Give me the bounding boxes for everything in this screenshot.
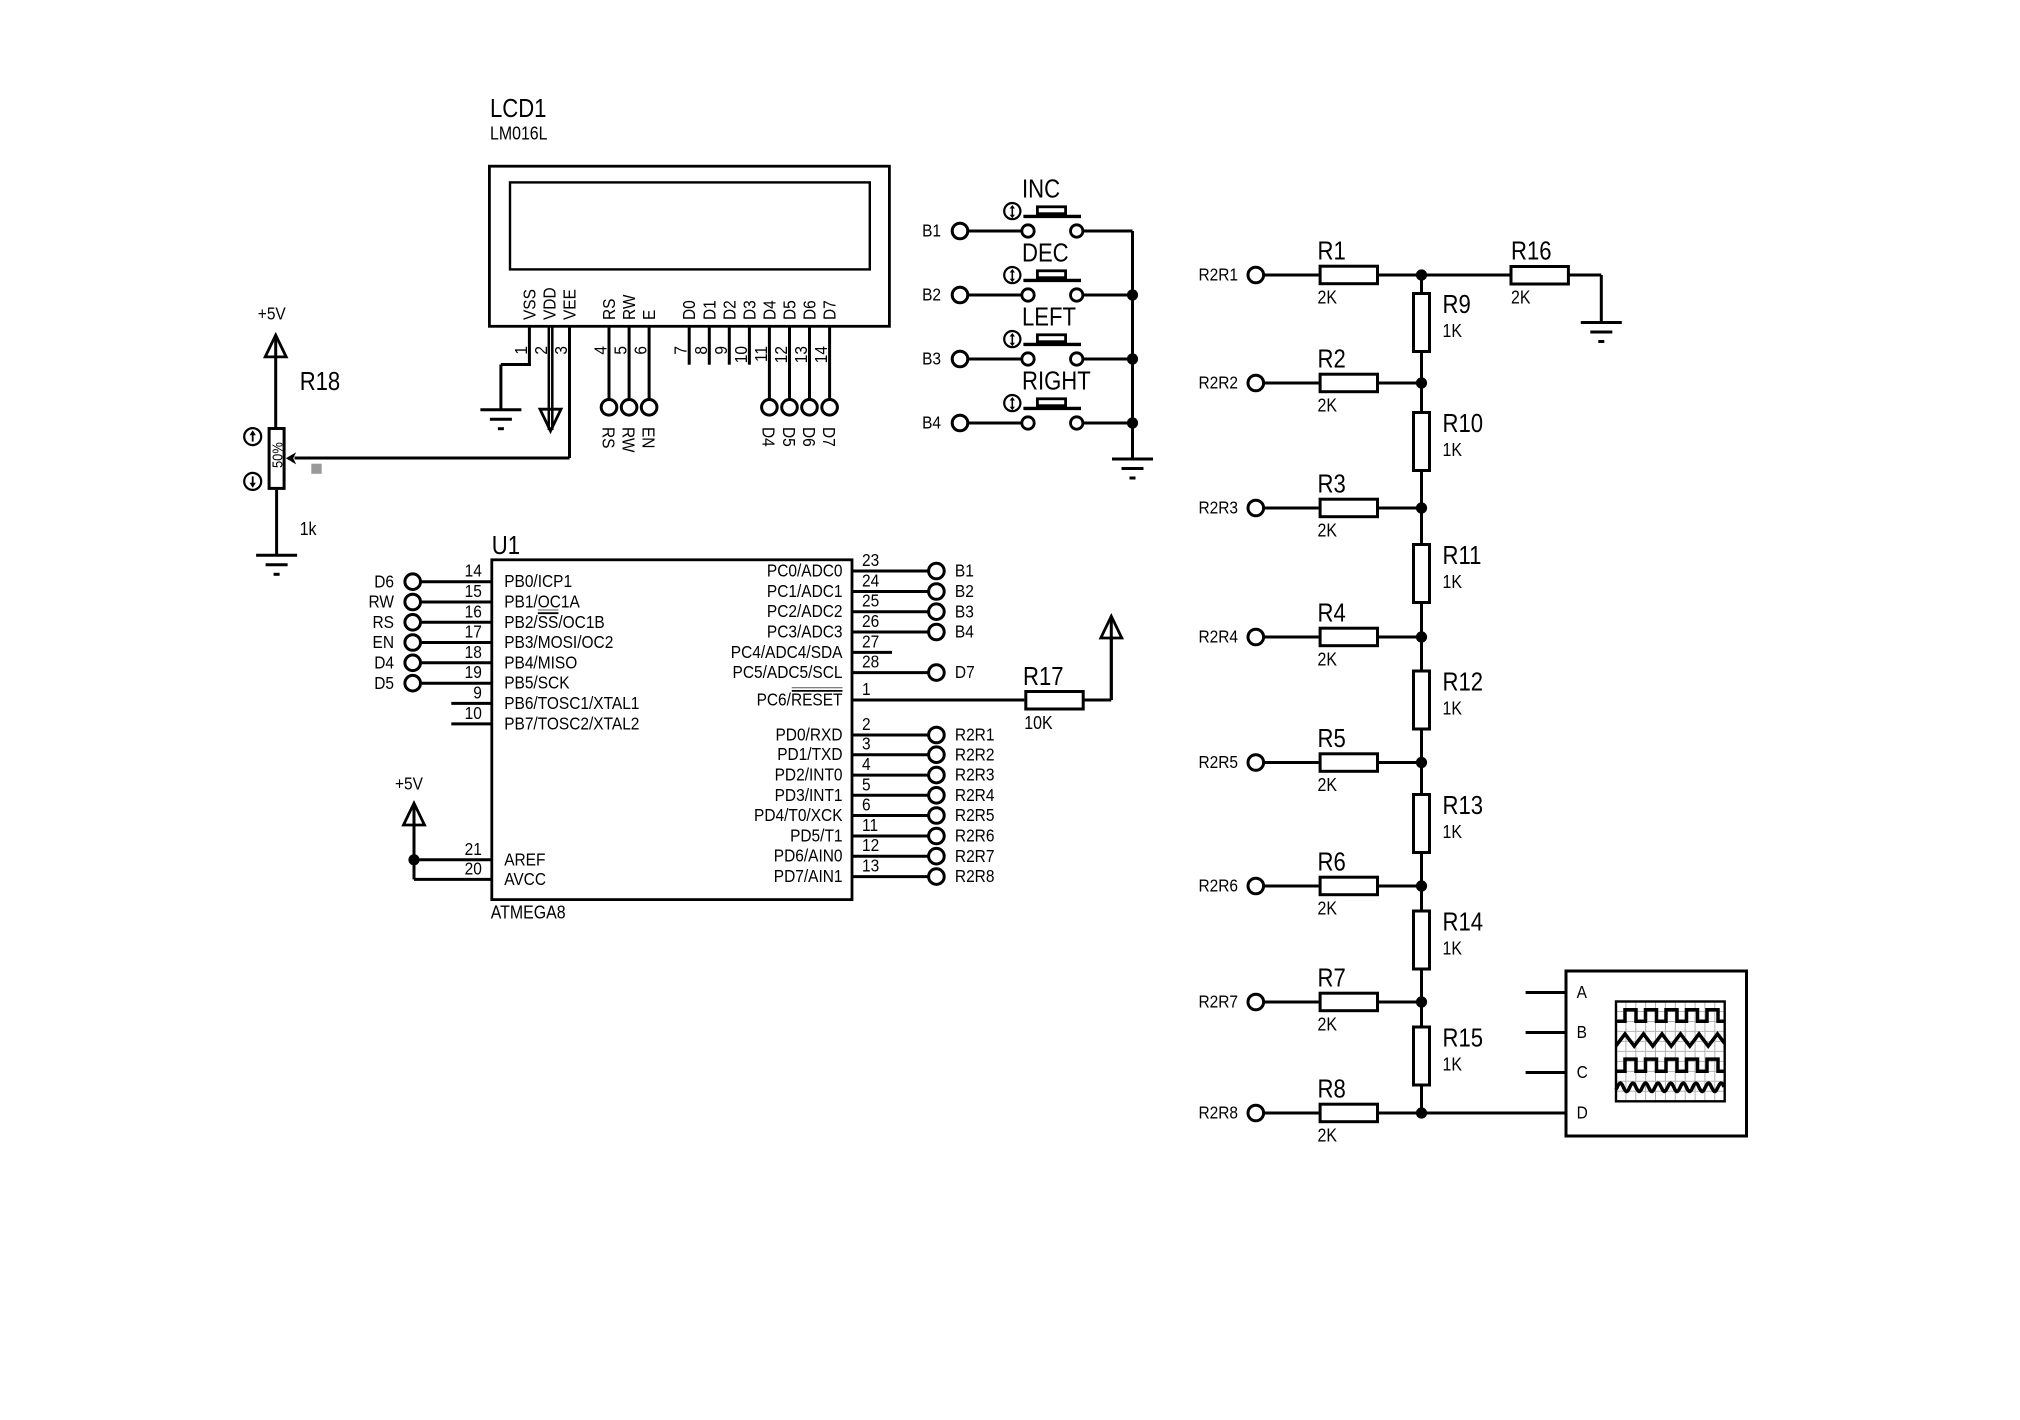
terminal D6 (LCD side) bbox=[802, 400, 818, 416]
svg-text:PD0/RXD: PD0/RXD bbox=[775, 724, 842, 744]
svg-text:1: 1 bbox=[862, 679, 871, 699]
svg-text:INC: INC bbox=[1022, 175, 1060, 204]
svg-text:R5: R5 bbox=[1318, 724, 1346, 753]
wire pin 23 bbox=[852, 570, 928, 573]
LCD screen inner rectangle bbox=[510, 182, 870, 269]
terminal R2R7 (ladder side) bbox=[1248, 994, 1264, 1010]
svg-text:B2: B2 bbox=[955, 581, 974, 601]
junction B3 bus bbox=[1127, 353, 1138, 364]
svg-text:2K: 2K bbox=[1318, 1124, 1338, 1145]
terminal D7 (U1 side) bbox=[929, 665, 945, 681]
wire bus segment below R13 bbox=[1420, 854, 1423, 886]
terminal EN (LCD side) bbox=[641, 400, 657, 416]
overline over RESET bbox=[792, 690, 843, 692]
svg-text:12: 12 bbox=[862, 835, 879, 855]
wire AVCC bbox=[413, 860, 416, 880]
resistor R11 body bbox=[1414, 545, 1430, 603]
terminal B4 (button side) bbox=[952, 415, 968, 431]
svg-text:R2R2: R2R2 bbox=[955, 744, 995, 764]
svg-text:B3: B3 bbox=[922, 349, 941, 369]
microcontroller U1 body bbox=[492, 560, 852, 900]
svg-text:R2R4: R2R4 bbox=[1198, 627, 1238, 647]
wire R18 bottom to ground bbox=[275, 490, 278, 555]
svg-text:D5: D5 bbox=[374, 673, 394, 693]
svg-text:U1: U1 bbox=[492, 531, 520, 560]
scope trace A square wave bbox=[1616, 1010, 1725, 1022]
wire B4 to button bbox=[969, 422, 1022, 425]
svg-text:PB7/TOSC2/XTAL2: PB7/TOSC2/XTAL2 bbox=[504, 713, 639, 733]
wire LCD pin12 to terminal bbox=[788, 326, 791, 399]
resistor R1 body bbox=[1320, 266, 1377, 284]
+5V power arrow (AREF) bbox=[404, 803, 425, 825]
wire R6 to ladder bus bbox=[1379, 885, 1422, 888]
resistor R8 body bbox=[1320, 1104, 1377, 1122]
wire R17 to +5V bbox=[1084, 699, 1111, 702]
svg-text:PD3/INT1: PD3/INT1 bbox=[775, 785, 843, 805]
svg-text:D5: D5 bbox=[779, 300, 799, 320]
svg-text:DEC: DEC bbox=[1022, 239, 1069, 268]
wire R2R2 to R2 bbox=[1265, 382, 1319, 385]
overline over SS bbox=[538, 612, 559, 614]
oscilloscope body bbox=[1566, 971, 1747, 1136]
wire button bus bbox=[1131, 231, 1134, 459]
wire bus segment above R10 bbox=[1420, 383, 1423, 411]
wire bus segment above R9 bbox=[1420, 275, 1423, 292]
svg-text:19: 19 bbox=[465, 662, 482, 682]
svg-text:PC3/ADC3: PC3/ADC3 bbox=[767, 621, 843, 641]
svg-text:R12: R12 bbox=[1443, 668, 1484, 697]
terminal D5 (LCD side) bbox=[782, 400, 798, 416]
wire pin 5 bbox=[852, 794, 928, 797]
svg-text:R6: R6 bbox=[1318, 848, 1346, 877]
svg-text:D7: D7 bbox=[955, 662, 975, 682]
svg-text:PB0/ICP1: PB0/ICP1 bbox=[504, 571, 572, 591]
stub pin 10 bbox=[451, 722, 492, 725]
svg-text:+5V: +5V bbox=[395, 773, 424, 793]
terminal B1 (U1 side) bbox=[929, 563, 945, 579]
terminal R2R8 (ladder side) bbox=[1248, 1105, 1264, 1121]
button INC interactive marker bbox=[1004, 203, 1020, 219]
wire LCD pin4 to terminal bbox=[608, 326, 611, 399]
terminal R2R4 (U1 side) bbox=[929, 788, 945, 804]
svg-text:B4: B4 bbox=[955, 622, 974, 642]
wire VSS elbow to ground bbox=[501, 363, 531, 366]
R18 decrement symbol bbox=[244, 473, 261, 490]
wire R1 to ladder bus bbox=[1379, 274, 1422, 277]
svg-text:1K: 1K bbox=[1443, 1053, 1463, 1074]
wire pin 12 bbox=[852, 855, 928, 858]
stub LCD pin7 bbox=[688, 326, 691, 364]
svg-text:R2R3: R2R3 bbox=[955, 765, 995, 785]
svg-text:LCD1: LCD1 bbox=[490, 94, 546, 123]
svg-text:23: 23 bbox=[862, 550, 879, 570]
svg-text:D7: D7 bbox=[820, 300, 840, 320]
junction ladder node 6 bbox=[1416, 880, 1427, 891]
svg-text:R16: R16 bbox=[1511, 237, 1552, 266]
svg-text:28: 28 bbox=[862, 652, 879, 672]
svg-text:PB5/SCK: PB5/SCK bbox=[504, 673, 569, 693]
svg-text:C: C bbox=[1577, 1062, 1588, 1082]
svg-text:R2R8: R2R8 bbox=[955, 866, 995, 886]
svg-text:9: 9 bbox=[473, 682, 482, 702]
svg-text:D7: D7 bbox=[819, 427, 839, 447]
wire bus segment above R11 bbox=[1420, 508, 1423, 543]
wire pin 2 bbox=[852, 734, 928, 737]
svg-text:4: 4 bbox=[862, 754, 871, 774]
stub scope input C bbox=[1526, 1071, 1566, 1074]
svg-text:B1: B1 bbox=[922, 221, 941, 241]
terminal R2R3 (ladder side) bbox=[1248, 500, 1264, 516]
svg-text:PB4/MISO: PB4/MISO bbox=[504, 652, 577, 672]
button RIGHT interactive marker bbox=[1004, 395, 1020, 411]
svg-text:RS: RS bbox=[599, 299, 619, 320]
resistor R3 body bbox=[1320, 499, 1377, 517]
terminal R2R2 (U1 side) bbox=[929, 747, 945, 763]
svg-text:D2: D2 bbox=[719, 300, 739, 320]
terminal D4 (LCD side) bbox=[762, 400, 778, 416]
terminal R2R8 (U1 side) bbox=[929, 869, 945, 885]
svg-text:3: 3 bbox=[862, 734, 871, 754]
wire button INC to bus bbox=[1083, 230, 1133, 233]
svg-text:PD1/TXD: PD1/TXD bbox=[777, 744, 842, 764]
wire bus segment below R11 bbox=[1420, 604, 1423, 637]
svg-text:R2R1: R2R1 bbox=[955, 725, 995, 745]
wire bus segment above R12 bbox=[1420, 637, 1423, 670]
terminal B3 (button side) bbox=[952, 351, 968, 367]
svg-text:VEE: VEE bbox=[559, 289, 579, 320]
svg-text:PD6/AIN0: PD6/AIN0 bbox=[774, 846, 843, 866]
svg-text:2K: 2K bbox=[1318, 519, 1338, 540]
wire LCD pin14 to terminal bbox=[828, 326, 831, 399]
svg-text:R11: R11 bbox=[1443, 541, 1482, 570]
terminal B2 (button side) bbox=[952, 287, 968, 303]
svg-text:AREF: AREF bbox=[504, 849, 545, 869]
wire R2R3 to R3 bbox=[1265, 507, 1319, 510]
svg-text:+5V: +5V bbox=[258, 303, 287, 323]
stub scope input B bbox=[1526, 1031, 1566, 1034]
svg-text:R2R6: R2R6 bbox=[1198, 876, 1238, 896]
svg-text:B3: B3 bbox=[955, 601, 974, 621]
junction ladder node 8 bbox=[1416, 1107, 1427, 1118]
button LEFT contacts bbox=[1022, 353, 1034, 365]
wire bus segment below R9 bbox=[1420, 353, 1423, 383]
wire LCD pin2 VDD down bbox=[548, 326, 551, 430]
terminal R2R4 (ladder side) bbox=[1248, 629, 1264, 645]
resistor R2 body bbox=[1320, 374, 1377, 392]
resistor R4 body bbox=[1320, 628, 1377, 646]
wire R5 to ladder bus bbox=[1379, 761, 1422, 764]
wire pin 16 bbox=[422, 621, 492, 624]
wire AREF bbox=[414, 858, 492, 861]
svg-text:B2: B2 bbox=[922, 285, 941, 305]
scope screen frame bbox=[1616, 1002, 1725, 1102]
svg-text:R8: R8 bbox=[1318, 1075, 1346, 1104]
svg-text:AVCC: AVCC bbox=[504, 869, 546, 889]
ground (buttons) bbox=[1112, 458, 1153, 461]
svg-text:PC2/ADC2: PC2/ADC2 bbox=[767, 601, 843, 621]
wire R16 to ground bbox=[1570, 274, 1602, 277]
junction ladder node 4 bbox=[1416, 631, 1427, 642]
junction B2 bus bbox=[1127, 289, 1138, 300]
svg-text:2K: 2K bbox=[1318, 286, 1338, 307]
resistor R5 body bbox=[1320, 754, 1377, 772]
svg-text:D4: D4 bbox=[374, 652, 394, 672]
svg-text:R14: R14 bbox=[1443, 908, 1484, 937]
svg-text:R18: R18 bbox=[300, 367, 341, 396]
svg-text:LEFT: LEFT bbox=[1022, 303, 1076, 332]
wire pin 15 bbox=[422, 601, 492, 604]
terminal RW (LCD side) bbox=[621, 400, 637, 416]
resistor R10 body bbox=[1414, 413, 1430, 471]
svg-text:R2R3: R2R3 bbox=[1198, 498, 1238, 518]
svg-text:1K: 1K bbox=[1443, 937, 1463, 958]
wire pin 11 bbox=[852, 835, 928, 838]
scope trace C square wave bbox=[1616, 1059, 1725, 1071]
svg-text:PB3/MOSI/OC2: PB3/MOSI/OC2 bbox=[504, 632, 613, 652]
stub pin 9 bbox=[451, 702, 492, 705]
terminal B4 (U1 side) bbox=[929, 624, 945, 640]
wire pin 18 bbox=[422, 661, 492, 664]
svg-text:21: 21 bbox=[465, 839, 482, 859]
stub LCD pin8 bbox=[708, 326, 711, 364]
wire R2R1 to R1 bbox=[1265, 274, 1319, 277]
terminal D4 (U1 side) bbox=[405, 655, 421, 671]
wire ladder to scope D input bbox=[1422, 1112, 1567, 1115]
wire PC6/RESET to R17 bbox=[852, 699, 1024, 702]
svg-text:1K: 1K bbox=[1443, 439, 1463, 460]
wire R4 to ladder bus bbox=[1379, 636, 1422, 639]
svg-text:PC0/ADC0: PC0/ADC0 bbox=[767, 560, 843, 580]
terminal R2R2 (ladder side) bbox=[1248, 375, 1264, 391]
wire button DEC to bus bbox=[1083, 294, 1133, 297]
svg-text:20: 20 bbox=[465, 858, 482, 878]
terminal D7 (LCD side) bbox=[822, 400, 838, 416]
svg-text:R17: R17 bbox=[1023, 662, 1064, 691]
wire bus segment below R10 bbox=[1420, 472, 1423, 508]
wire pin 13 bbox=[852, 875, 928, 878]
resistor R13 body bbox=[1414, 795, 1430, 853]
svg-text:D6: D6 bbox=[799, 427, 819, 447]
wire ladder node to R16 bbox=[1422, 274, 1510, 277]
ground (R18) bbox=[256, 554, 297, 557]
wire B1 to button bbox=[969, 230, 1022, 233]
push button DEC actuator bbox=[1037, 271, 1065, 278]
wire LCD pin5 to terminal bbox=[628, 326, 631, 399]
resistor R6 body bbox=[1320, 877, 1377, 895]
svg-text:1K: 1K bbox=[1443, 571, 1463, 592]
svg-text:R3: R3 bbox=[1318, 470, 1346, 499]
svg-text:EN: EN bbox=[638, 427, 658, 448]
resistor R12 body bbox=[1414, 671, 1430, 729]
terminal R2R5 (ladder side) bbox=[1248, 755, 1264, 771]
wire R8 to ladder bus bbox=[1379, 1112, 1422, 1115]
wire pin 3 bbox=[852, 753, 928, 756]
push button LEFT actuator bbox=[1037, 335, 1065, 342]
svg-text:PD5/T1: PD5/T1 bbox=[790, 825, 842, 845]
terminal RW (U1 side) bbox=[405, 594, 421, 610]
svg-text:D1: D1 bbox=[699, 300, 719, 320]
gray origin marker bbox=[311, 464, 321, 474]
svg-text:PB1/OC1A: PB1/OC1A bbox=[504, 591, 580, 611]
resistor R16 body bbox=[1511, 267, 1568, 285]
wire bus segment below R15 bbox=[1420, 1087, 1423, 1114]
button RIGHT contacts bbox=[1022, 417, 1034, 429]
terminal RS (U1 side) bbox=[405, 615, 421, 631]
terminal B3 (U1 side) bbox=[929, 604, 945, 620]
wire pin 4 bbox=[852, 774, 928, 777]
junction ladder node 2 bbox=[1416, 377, 1427, 388]
wire R2R6 to R6 bbox=[1265, 885, 1319, 888]
wire pin 26 bbox=[852, 631, 928, 634]
svg-text:RW: RW bbox=[619, 294, 639, 320]
wire R2R4 to R4 bbox=[1265, 636, 1319, 639]
svg-text:B: B bbox=[1577, 1022, 1587, 1042]
wire bus segment below R12 bbox=[1420, 731, 1423, 763]
terminal RS (LCD side) bbox=[601, 400, 617, 416]
resistor R15 body bbox=[1414, 1027, 1430, 1085]
button INC contacts bbox=[1022, 225, 1034, 237]
svg-text:2K: 2K bbox=[1318, 394, 1338, 415]
svg-text:R2R1: R2R1 bbox=[1198, 265, 1238, 285]
potentiometer R18 body bbox=[269, 429, 284, 489]
svg-text:1K: 1K bbox=[1443, 320, 1463, 341]
svg-text:PD7/AIN1: PD7/AIN1 bbox=[774, 866, 843, 886]
resistor R17 body bbox=[1026, 692, 1083, 710]
wire VEE to R18 wiper bbox=[295, 457, 570, 460]
svg-text:1K: 1K bbox=[1443, 821, 1463, 842]
LCD display LCD1 outer body bbox=[489, 166, 889, 326]
svg-text:2: 2 bbox=[862, 714, 871, 734]
svg-text:R2R4: R2R4 bbox=[955, 785, 995, 805]
svg-text:18: 18 bbox=[465, 642, 482, 662]
junction AREF node bbox=[408, 854, 419, 865]
svg-text:R2R2: R2R2 bbox=[1198, 373, 1238, 393]
wire B3 to button bbox=[969, 358, 1022, 361]
svg-text:VSS: VSS bbox=[519, 289, 539, 320]
junction ladder node 5 bbox=[1416, 757, 1427, 768]
wire bus segment above R13 bbox=[1420, 763, 1423, 794]
svg-text:2K: 2K bbox=[1318, 648, 1338, 669]
terminal D5 (U1 side) bbox=[405, 675, 421, 691]
resistor R9 body bbox=[1414, 294, 1430, 352]
wire pin 6 bbox=[852, 814, 928, 817]
stub LCD pin9 bbox=[728, 326, 731, 364]
svg-text:D5: D5 bbox=[779, 427, 799, 447]
ground (LCD VSS) bbox=[480, 408, 521, 411]
svg-text:RS: RS bbox=[373, 612, 394, 632]
svg-text:1K: 1K bbox=[1443, 697, 1463, 718]
svg-text:LM016L: LM016L bbox=[490, 122, 548, 143]
svg-text:2K: 2K bbox=[1318, 1013, 1338, 1034]
wire pin 25 bbox=[852, 610, 928, 613]
ground (R16) bbox=[1581, 321, 1622, 324]
svg-text:D: D bbox=[1577, 1103, 1588, 1123]
svg-text:PC1/ADC1: PC1/ADC1 bbox=[767, 581, 843, 601]
terminal R2R1 (ladder side) bbox=[1248, 267, 1264, 283]
svg-text:2K: 2K bbox=[1511, 286, 1531, 307]
wire R3 to ladder bus bbox=[1379, 507, 1422, 510]
svg-text:D6: D6 bbox=[799, 300, 819, 320]
R18 wiper arrowhead bbox=[286, 452, 296, 464]
svg-text:RW: RW bbox=[618, 427, 638, 453]
svg-text:RW: RW bbox=[369, 592, 395, 612]
svg-text:10K: 10K bbox=[1024, 712, 1053, 733]
wire R7 to ladder bus bbox=[1379, 1001, 1422, 1004]
svg-text:PD2/INT0: PD2/INT0 bbox=[775, 765, 843, 785]
svg-text:R10: R10 bbox=[1443, 409, 1484, 438]
svg-text:R2R7: R2R7 bbox=[1198, 992, 1238, 1012]
+5V power arrow (R18) bbox=[265, 335, 286, 357]
scope trace D sine wave bbox=[1616, 1083, 1724, 1091]
svg-text:D3: D3 bbox=[739, 300, 759, 320]
svg-text:D0: D0 bbox=[679, 300, 699, 320]
svg-text:6: 6 bbox=[862, 794, 871, 814]
svg-text:RS: RS bbox=[598, 427, 618, 448]
wire button LEFT to bus bbox=[1083, 358, 1133, 361]
wire pin 28 bbox=[852, 671, 928, 674]
wire bus segment below R14 bbox=[1420, 971, 1423, 1003]
wire pin 17 bbox=[422, 641, 492, 644]
wire R2R8 to R8 bbox=[1265, 1112, 1319, 1115]
svg-text:R2R7: R2R7 bbox=[955, 846, 995, 866]
scope screen grid bbox=[1625, 1002, 1627, 1102]
svg-text:R2R5: R2R5 bbox=[955, 805, 995, 825]
svg-text:RIGHT: RIGHT bbox=[1022, 367, 1091, 396]
wire R2R7 to R7 bbox=[1265, 1001, 1319, 1004]
svg-text:B1: B1 bbox=[955, 561, 974, 581]
terminal R2R3 (U1 side) bbox=[929, 767, 945, 783]
svg-text:A: A bbox=[1577, 982, 1588, 1002]
push button RIGHT actuator bbox=[1037, 399, 1065, 406]
svg-text:D6: D6 bbox=[374, 571, 394, 591]
svg-text:PB2/SS/OC1B: PB2/SS/OC1B bbox=[504, 612, 605, 632]
button DEC interactive marker bbox=[1004, 267, 1020, 283]
wire LCD pin6 to terminal bbox=[648, 326, 651, 399]
wire LCD pin3 VEE down bbox=[568, 326, 571, 458]
terminal R2R5 (U1 side) bbox=[929, 808, 945, 824]
svg-text:R13: R13 bbox=[1443, 791, 1484, 820]
svg-text:14: 14 bbox=[465, 561, 482, 581]
junction ladder node 3 bbox=[1416, 502, 1427, 513]
junction ladder node 1 bbox=[1416, 269, 1427, 280]
power down-arrow on VDD pin bbox=[540, 409, 561, 431]
button DEC contacts bbox=[1022, 289, 1034, 301]
svg-text:PC5/ADC5/SCL: PC5/ADC5/SCL bbox=[733, 662, 843, 682]
svg-text:PC6/RESET: PC6/RESET bbox=[757, 689, 843, 709]
svg-text:24: 24 bbox=[862, 570, 879, 590]
wire bus segment above R15 bbox=[1420, 1002, 1423, 1026]
scope trace B triangle wave bbox=[1616, 1034, 1725, 1046]
svg-text:10: 10 bbox=[465, 703, 482, 723]
terminal B2 (U1 side) bbox=[929, 584, 945, 600]
svg-text:D4: D4 bbox=[759, 300, 779, 320]
svg-text:5: 5 bbox=[862, 774, 871, 794]
svg-text:VDD: VDD bbox=[539, 287, 559, 320]
svg-text:15: 15 bbox=[465, 581, 482, 601]
junction B4 bus bbox=[1127, 417, 1138, 428]
svg-text:R1: R1 bbox=[1318, 237, 1346, 266]
stub pin 27 bbox=[852, 651, 892, 654]
svg-text:R15: R15 bbox=[1443, 1024, 1484, 1053]
svg-text:13: 13 bbox=[862, 856, 879, 876]
wire B2 to button bbox=[969, 294, 1022, 297]
svg-text:R2: R2 bbox=[1318, 345, 1346, 374]
svg-text:PB6/TOSC1/XTAL1: PB6/TOSC1/XTAL1 bbox=[504, 693, 639, 713]
wire bus segment above R14 bbox=[1420, 886, 1423, 910]
wire pin 19 bbox=[422, 682, 492, 685]
wire LCD pin11 to terminal bbox=[768, 326, 771, 399]
wire R2R5 to R5 bbox=[1265, 761, 1319, 764]
